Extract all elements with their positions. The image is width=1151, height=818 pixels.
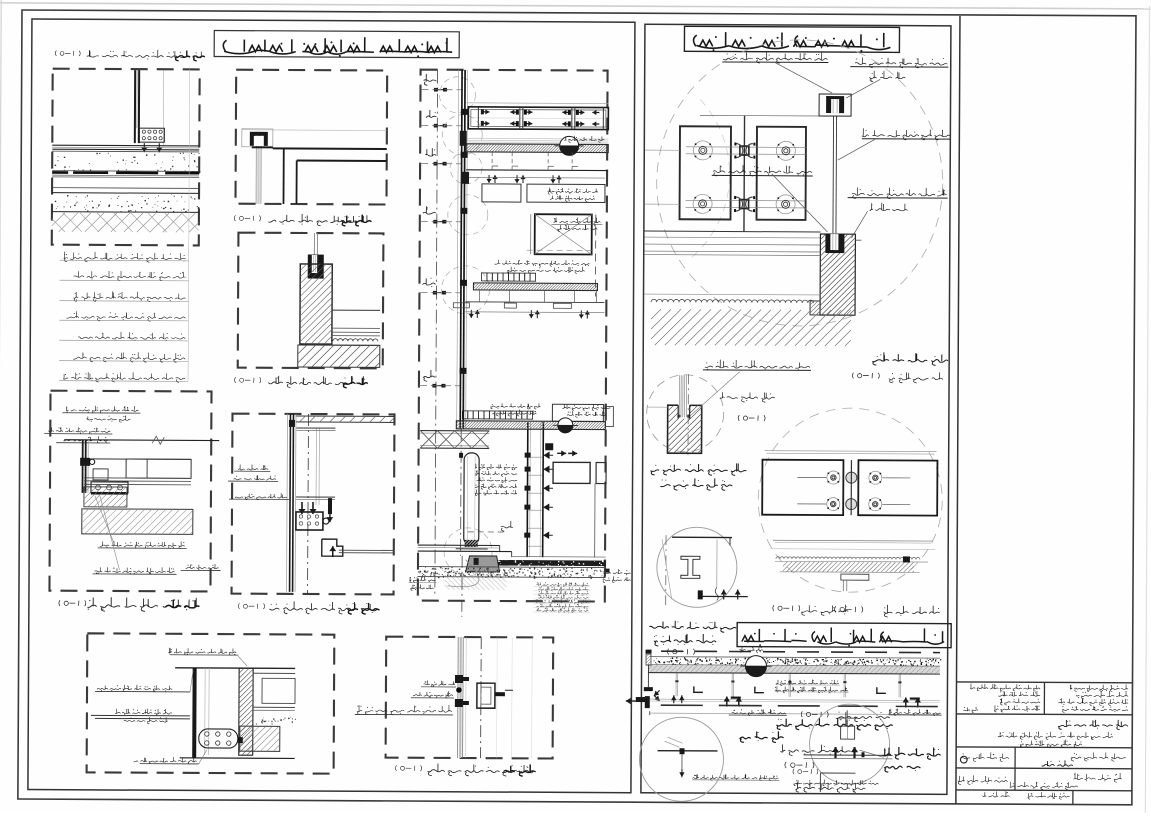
detail 1 caption	[268, 214, 371, 226]
detail 7 caption	[87, 49, 205, 57]
detail 3 small leader labels	[238, 464, 268, 470]
student row	[1074, 773, 1122, 783]
sheet name row	[1071, 752, 1126, 761]
bottom-left circle detail	[639, 717, 723, 801]
text: tarkeeb ceiling w/ concrete	[776, 718, 892, 731]
mid annotation texts	[553, 217, 600, 224]
title block row lines	[956, 681, 1132, 684]
wall centerline extension	[461, 556, 463, 617]
lower mullion ladder detail	[526, 422, 529, 557]
bottom-right big circle: rail plan	[758, 408, 943, 593]
label: steel channel right 2	[852, 187, 947, 199]
title block cell dividers	[1043, 682, 1045, 714]
text: tarkeeb al-saqf right	[882, 747, 940, 760]
detail 1 drawing: head channel	[242, 129, 273, 147]
detail 2 dashed box	[238, 233, 384, 369]
detail 4 leader labels	[424, 680, 455, 687]
label: blue glass right	[862, 128, 950, 140]
handrail panel frame	[641, 24, 951, 794]
left panel title box: tafaseel al-hawaet al-sateriya	[214, 31, 459, 58]
detail 2 caption	[268, 376, 368, 388]
column w/ rounded top	[464, 453, 479, 545]
top glass channel	[819, 94, 851, 116]
project name row	[1058, 720, 1128, 730]
mid-left small circle detail	[646, 375, 723, 452]
brick row 1	[481, 273, 486, 281]
suspended ceiling boxes 1	[482, 184, 521, 202]
scan edge artifacts	[0, 3, 1151, 9]
detail 6 drawing: window sill at wall	[64, 439, 219, 442]
bottom-mid circle detail	[809, 704, 889, 784]
detail 1 dashed box	[235, 70, 387, 205]
label: silicone top	[723, 52, 827, 63]
plan view rails	[700, 114, 819, 117]
dark tile band	[493, 560, 606, 566]
scale text mid right	[836, 710, 890, 722]
slab 1 hatched	[466, 137, 608, 140]
detail 7 drawing: floor section w/ mullion	[134, 70, 136, 143]
detail label right: tafseel elkobasta	[872, 352, 948, 365]
title block: university cell	[1070, 684, 1128, 692]
top window band	[466, 102, 608, 105]
ceiling hangers 1	[466, 169, 608, 172]
detail 3 dashed box	[232, 414, 395, 595]
small arrow at left panel edge	[636, 697, 646, 702]
label: silicone mid	[713, 165, 812, 176]
runner clips and arrows	[694, 686, 703, 692]
hanger wires	[675, 673, 677, 696]
detail 4 dashed box	[386, 637, 554, 759]
broken thick line under runners	[661, 704, 703, 706]
left tiny labels	[410, 577, 436, 583]
title block: course cell	[970, 684, 1040, 692]
ceiling detail caption left	[649, 621, 736, 633]
slab 2 hatched	[473, 283, 597, 291]
detail 2 drawing: parapet glass channel	[313, 233, 315, 256]
label: tafseel tarkeeb glass	[650, 463, 746, 476]
ceiling hangers 2	[465, 301, 604, 304]
numbered levels	[424, 74, 437, 85]
runner lines	[650, 699, 940, 701]
left panel frame	[28, 19, 635, 793]
detail 3 drawing: mullion bracket	[295, 415, 394, 418]
bottom-left detail dashed box	[87, 633, 335, 773]
dim 70 mark	[501, 521, 513, 531]
annotation rows mid-lower	[490, 403, 540, 409]
big top dashed circle	[656, 39, 943, 326]
label silicone above small circle	[705, 360, 810, 369]
ground speckle band	[418, 566, 606, 569]
floor label block	[475, 464, 517, 470]
bottom-left drawing: glass/wall corner	[168, 648, 236, 656]
foundation mound	[466, 556, 500, 572]
bottom-left leader labels	[97, 685, 172, 692]
central section dashed box	[418, 70, 608, 602]
handrail panel title box	[684, 26, 899, 52]
scale text above ceiling title	[801, 604, 848, 615]
central section dimension axis	[435, 70, 438, 595]
detail 6 caption	[87, 597, 199, 611]
label: steel channel top right	[855, 57, 947, 68]
detail 6 leader labels bottom	[100, 541, 185, 549]
truss below slab3	[420, 430, 489, 432]
tiny labels inside ceiling band	[776, 679, 839, 686]
title column left edge	[956, 16, 960, 804]
window with X brace	[535, 214, 592, 254]
slab 3 hatched	[456, 421, 605, 430]
detail 6 leader labels top	[66, 406, 138, 414]
bottom small texts	[793, 769, 818, 775]
kanana labels below band	[732, 709, 786, 716]
detail 6 dashed box	[49, 391, 211, 592]
date/scale row	[983, 791, 1010, 797]
detail 7 material layer labels	[64, 252, 186, 263]
bottom layer labels small	[536, 582, 588, 587]
detail 3 caption	[269, 601, 379, 614]
left end assembly	[646, 650, 652, 654]
handrail base block	[644, 230, 820, 233]
ceiling section title box	[737, 623, 951, 648]
bottom-left circle: ceiling corner detail	[657, 527, 737, 607]
brick row 2	[462, 411, 467, 419]
main curtain wall verticals	[457, 70, 459, 429]
detail 4 drawing: spider glass fitting	[459, 637, 462, 758]
detail 4 caption	[427, 763, 535, 776]
glass pane vertical	[832, 116, 835, 233]
ground floor assembly	[418, 544, 500, 546]
leader circles on wall	[439, 77, 475, 113]
detail 7 dashed box	[52, 69, 200, 246]
ceiling band drawing	[661, 651, 940, 652]
wall anchor bracket	[460, 131, 467, 146]
